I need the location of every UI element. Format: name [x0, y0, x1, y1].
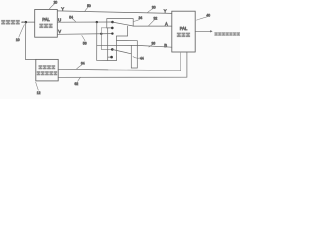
wire input down to generator [26, 22, 36, 60]
svg-text:10: 10 [16, 38, 20, 42]
wire v1 U down across to S2 [97, 22, 117, 61]
switch S2 pole [113, 50, 132, 54]
wire A output S1 to encoder [133, 25, 172, 27]
svg-text:62: 62 [75, 82, 79, 86]
block PAL decoder box [35, 10, 58, 38]
wire encoder output with arrowhead [195, 30, 210, 32]
text 嵌入二维 blobs [39, 65, 56, 69]
text 信号产生器 blobs [37, 71, 58, 75]
text 外部视频源设备 blobs [214, 32, 240, 35]
svg-text:U: U [58, 17, 61, 22]
switch S1 pole [113, 22, 134, 26]
node S2 top contact [111, 48, 114, 51]
switch S2 lower contact stub [108, 56, 111, 58]
node S1 top contact [111, 21, 114, 24]
svg-text:12: 12 [37, 91, 41, 95]
wire U line decoder to switch S1 top contact [57, 21, 112, 23]
switch S1 frame [107, 19, 133, 28]
wire V down to S2 top contact (faint) [101, 34, 112, 50]
svg-text:Y: Y [61, 6, 64, 11]
wire generator line1 to encoder bottom [58, 68, 108, 71]
svg-text:PAL: PAL [180, 26, 188, 31]
text 编码器 blobs [177, 33, 190, 38]
svg-text:A: A [165, 22, 168, 27]
node junction j2 V tee [100, 33, 102, 35]
block signal generator box [36, 59, 58, 81]
svg-text:56: 56 [83, 41, 87, 45]
node S1 lower contact [111, 27, 114, 30]
wire V line decoder to dot [57, 33, 112, 36]
wire long line L2 to B corner [97, 44, 138, 46]
wire video input with arrowhead [21, 21, 34, 23]
svg-text:Y: Y [164, 9, 167, 14]
node video input label 视频输入 (blob glyphs) [1, 20, 20, 25]
wire A tee down and across [116, 26, 127, 61]
wire Y line decoder to encoder [57, 11, 172, 14]
wire V up to S1 lower contact (faint) [101, 28, 107, 34]
svg-text:B: B [164, 43, 167, 48]
wire S2 left vertical [107, 28, 109, 61]
node junction j1 U tee [96, 21, 98, 23]
wire generator line2 to encoder bottom [58, 52, 187, 77]
switch S1 lower contact stub [107, 27, 111, 29]
block PAL encoder box [172, 11, 195, 52]
node V end dot [111, 32, 113, 34]
wire B output to encoder [137, 45, 172, 47]
wire S2 pivot loop down right up [131, 41, 137, 68]
svg-text:44: 44 [140, 57, 144, 61]
text 解码器 blobs [39, 24, 52, 28]
node S2 lower contact [110, 56, 113, 59]
svg-text:PAL: PAL [42, 17, 50, 22]
svg-text:V: V [58, 29, 61, 34]
node junction input tee [25, 21, 28, 24]
